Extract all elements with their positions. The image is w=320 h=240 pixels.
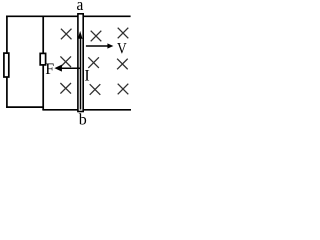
wire: bottom rail left segment xyxy=(6,106,44,108)
current arrowhead (up) on rod xyxy=(78,31,83,39)
magnetic field cross B4 xyxy=(60,56,71,67)
wire: left branch xyxy=(6,16,8,108)
velocity arrowhead (right) xyxy=(107,43,113,48)
magnetic field cross B3 xyxy=(118,28,129,39)
resistor R2 (middle branch) xyxy=(40,53,45,65)
svg-text:b: b xyxy=(79,111,87,125)
magnetic field cross B9 xyxy=(118,84,129,95)
svg-text:F: F xyxy=(45,61,54,78)
svg-text:V: V xyxy=(117,41,127,58)
magnetic field cross B7 xyxy=(60,83,71,94)
svg-text:a: a xyxy=(77,0,84,14)
magnetic field cross B1 xyxy=(61,29,72,40)
wire: top rail xyxy=(6,15,131,17)
magnetic field cross B8 xyxy=(90,84,101,95)
wire: bottom rail right segment xyxy=(42,109,131,111)
magnetic field cross B2 xyxy=(91,31,102,42)
current arrow shaft in rod xyxy=(80,38,82,110)
conducting rod ab xyxy=(78,14,83,112)
force arrow F shaft xyxy=(61,67,81,69)
velocity arrow v shaft xyxy=(86,45,109,47)
wire: middle branch xyxy=(42,16,44,111)
svg-text:I: I xyxy=(84,68,89,85)
magnetic field cross B6 xyxy=(117,59,128,70)
force arrowhead (left) xyxy=(54,65,62,72)
magnetic field cross B5 xyxy=(88,57,99,68)
resistor R1 (left branch) xyxy=(4,53,9,77)
